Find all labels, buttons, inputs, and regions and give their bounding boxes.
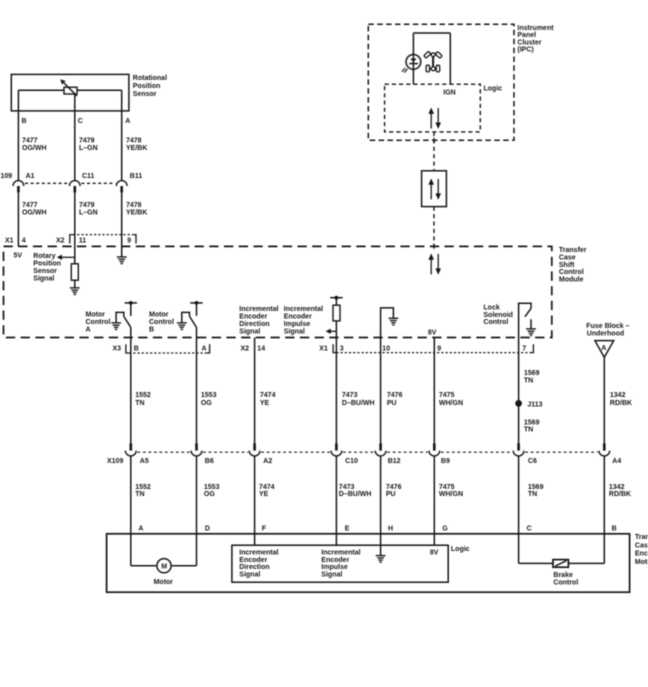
pin row X2-14	[241, 346, 266, 353]
wire YE/BK to ground inside module	[121, 246, 123, 256]
connector terminal A4	[599, 443, 621, 465]
wire 7479 L-GN lower segment	[74, 193, 76, 247]
svg-text:OG: OG	[204, 491, 215, 498]
svg-text:C11: C11	[82, 173, 95, 180]
svg-text:1553: 1553	[204, 484, 220, 491]
svg-text:YE: YE	[259, 491, 269, 498]
potentiometer element line	[18, 89, 121, 91]
svg-text:Encoder: Encoder	[239, 314, 267, 321]
impulse signal pullup tap	[330, 296, 343, 305]
connector dashed link A1-C11	[25, 182, 68, 184]
svg-text:YE/BK: YE/BK	[126, 209, 147, 216]
svg-text:Incremental: Incremental	[284, 306, 323, 313]
svg-text:A: A	[202, 346, 207, 353]
svg-text:Motor: Motor	[635, 559, 648, 566]
svg-text:1342: 1342	[609, 484, 625, 491]
svg-text:A5: A5	[140, 458, 149, 465]
connector terminal A1	[13, 173, 35, 193]
wire 7473 D-BU/WH upper	[335, 338, 337, 444]
svg-text:1552: 1552	[135, 484, 151, 491]
svg-text:Motor: Motor	[154, 579, 174, 586]
serial data dashed wire upper	[433, 132, 435, 171]
connector terminal B6	[191, 443, 214, 465]
svg-text:Instrument: Instrument	[517, 25, 554, 32]
connector terminal B11	[116, 173, 142, 193]
svg-text:7: 7	[522, 346, 526, 353]
svg-text:C10: C10	[345, 458, 358, 465]
svg-text:B11: B11	[130, 173, 143, 180]
label 1569 TN (lower)	[528, 484, 544, 498]
svg-text:Rotary: Rotary	[33, 253, 55, 260]
motor feed wire D bend	[171, 565, 197, 567]
motor M	[157, 559, 171, 573]
svg-text:1569: 1569	[524, 370, 540, 377]
svg-text:OG/WH: OG/WH	[22, 209, 47, 216]
label Incremental Encoder Impulse Signal (encoder box)	[321, 549, 360, 578]
IPC logic serial arrows	[428, 108, 441, 129]
connector X109 dashed links	[137, 451, 597, 453]
svg-text:L–GN: L–GN	[79, 145, 98, 152]
label Brake Control	[553, 572, 578, 586]
wire 7474 YE lower	[254, 456, 256, 545]
svg-text:Encoder: Encoder	[284, 314, 312, 321]
label Motor Control A	[86, 312, 111, 334]
svg-text:Impulse: Impulse	[321, 564, 348, 571]
wire 7476 PU upper	[380, 338, 382, 444]
svg-text:L–GN: L–GN	[79, 209, 98, 216]
svg-text:1552: 1552	[135, 392, 151, 399]
svg-text:RD/BK: RD/BK	[610, 400, 632, 407]
svg-text:Lock: Lock	[483, 304, 499, 311]
wire impulse resistor to pin 3	[335, 321, 337, 338]
pin row X3	[113, 344, 210, 353]
label 1342 RD/BK (lower)	[609, 484, 631, 498]
ground pin 10	[389, 318, 399, 325]
svg-text:1553: 1553	[201, 392, 217, 399]
svg-text:Control: Control	[553, 580, 578, 587]
svg-text:Sensor: Sensor	[133, 91, 157, 98]
svg-text:Signal: Signal	[284, 328, 305, 335]
svg-text:Fuse Block –: Fuse Block –	[586, 323, 629, 330]
IPC lamp wire lower	[412, 69, 414, 84]
svg-text:7477: 7477	[22, 138, 38, 145]
label 7476 PU (lower)	[386, 484, 402, 498]
svg-text:A: A	[125, 118, 130, 125]
label 1553 OG (upper)	[201, 392, 217, 407]
svg-text:Direction: Direction	[239, 321, 269, 328]
svg-text:Module: Module	[559, 276, 584, 283]
serial wire border tick 2	[433, 244, 435, 249]
impulse signal arrow	[326, 329, 337, 334]
label Transfer Case Shift Control Module	[559, 247, 587, 283]
svg-text:Control: Control	[483, 319, 508, 326]
svg-text:B12: B12	[388, 458, 401, 465]
connector X1 dotted span	[336, 352, 530, 354]
ground pin H	[376, 556, 386, 563]
label 7473 D-BU/WH (lower)	[339, 484, 372, 498]
svg-text:Transfer: Transfer	[559, 247, 587, 254]
svg-text:Motor: Motor	[149, 312, 169, 319]
label 7475 WH/GN (upper)	[439, 392, 463, 407]
indicator lamp	[402, 55, 421, 73]
svg-text:X109: X109	[107, 458, 123, 465]
svg-text:X2: X2	[56, 237, 65, 244]
potentiometer wiper body	[60, 79, 77, 96]
svg-text:9: 9	[437, 346, 441, 353]
resistor rotary signal	[71, 264, 78, 280]
svg-text:7479: 7479	[79, 202, 95, 209]
connector terminal A2	[249, 443, 272, 465]
svg-text:Control: Control	[559, 269, 584, 276]
wire 7478 YE/BK lower segment	[121, 193, 123, 247]
brake wire B bend	[568, 562, 604, 564]
svg-text:Case: Case	[559, 255, 576, 262]
label 7478 YE/BK (upper)	[126, 138, 147, 153]
svg-text:X109: X109	[0, 173, 12, 180]
label Fuse Block - Underhood	[586, 323, 629, 337]
rotational position sensor box	[11, 74, 129, 111]
svg-text:Position: Position	[133, 83, 161, 90]
label 7475 WH/GN (lower)	[439, 484, 463, 498]
wire 1569 TN lower	[518, 456, 520, 563]
svg-text:5V: 5V	[14, 253, 23, 260]
wire 7475 WH/GN lower	[433, 456, 435, 545]
label 7476 PU (upper)	[387, 392, 403, 407]
wire 1552 TN lower	[130, 456, 132, 566]
svg-text:7479: 7479	[79, 138, 95, 145]
svg-text:C: C	[527, 526, 532, 533]
connector terminal A5	[125, 443, 148, 465]
svg-text:Incremental: Incremental	[321, 549, 360, 556]
svg-text:B6: B6	[205, 458, 214, 465]
svg-text:7475: 7475	[439, 392, 455, 399]
svg-text:B: B	[22, 118, 27, 125]
svg-text:Encoder: Encoder	[239, 557, 267, 564]
svg-text:X1: X1	[5, 237, 14, 244]
instrument panel cluster dashed box	[368, 24, 514, 140]
svg-text:C: C	[78, 118, 83, 125]
svg-text:PU: PU	[387, 400, 397, 407]
label 1553 OG (lower)	[204, 484, 220, 498]
svg-text:Signal: Signal	[239, 328, 260, 335]
wire 7477 OG/WH lower segment	[17, 193, 19, 247]
svg-text:7478: 7478	[126, 138, 142, 145]
label 7479 L-GN (lower)	[79, 202, 98, 217]
svg-text:3: 3	[340, 346, 344, 353]
svg-text:1569: 1569	[524, 419, 540, 426]
svg-text:Signal: Signal	[321, 572, 342, 579]
wire pin 10 to ground	[381, 308, 394, 338]
svg-text:F: F	[262, 526, 267, 533]
wire 7477 OG/WH upper segment	[17, 90, 19, 181]
svg-text:9: 9	[127, 237, 131, 244]
svg-text:Solenoid: Solenoid	[483, 312, 513, 319]
lock solenoid switch	[519, 303, 531, 337]
svg-text:8V: 8V	[428, 330, 437, 337]
IPC logic dashed box	[385, 84, 481, 132]
label 7473 D-BU/WH (upper)	[342, 392, 375, 407]
serial data link box	[422, 171, 447, 207]
svg-text:OG: OG	[201, 400, 212, 407]
svg-text:WH/GN: WH/GN	[439, 491, 463, 498]
connector dashed link C11-B11	[81, 182, 115, 184]
svg-text:E: E	[345, 526, 350, 533]
svg-text:B: B	[134, 346, 139, 353]
connector terminal C10	[331, 443, 358, 465]
svg-text:D–BU/WH: D–BU/WH	[342, 400, 375, 407]
label 7474 YE (upper)	[260, 392, 276, 407]
transfer case shift control module dashed box	[4, 246, 552, 337]
wire 1553 OG upper	[196, 338, 198, 444]
serial link box arrows	[428, 178, 441, 199]
serial data dashed wire lower	[433, 207, 435, 247]
sensor pin letters B C A	[22, 118, 131, 125]
wire 7479 L-GN upper segment	[74, 94, 76, 181]
encoder logic box	[232, 545, 448, 582]
svg-text:A: A	[138, 526, 143, 533]
svg-text:Rotational: Rotational	[133, 75, 167, 82]
svg-text:14: 14	[257, 346, 265, 353]
svg-text:G: G	[442, 526, 448, 533]
svg-text:11: 11	[79, 237, 87, 244]
module serial arrows	[428, 253, 441, 274]
svg-text:Incremental: Incremental	[239, 549, 278, 556]
svg-text:Shift: Shift	[559, 262, 575, 269]
wire 7474 YE upper	[254, 338, 256, 444]
label Rotational Position Sensor	[133, 75, 167, 98]
wire 1552 TN upper	[130, 338, 132, 444]
connector terminal B12	[375, 443, 400, 465]
label 7477 OG/WH (lower)	[22, 202, 47, 217]
label Rotary Position Sensor Signal	[33, 253, 61, 283]
fuse block triangle A	[595, 341, 614, 358]
IPC IGN wire	[449, 33, 451, 84]
svg-text:Direction: Direction	[239, 564, 269, 571]
label 7474 YE (lower)	[259, 484, 275, 498]
svg-text:Impulse: Impulse	[284, 321, 311, 328]
wire L-GN inside module	[74, 246, 76, 263]
svg-text:Panel: Panel	[517, 32, 536, 39]
brake control element	[553, 560, 568, 568]
svg-text:H: H	[388, 526, 393, 533]
label Lock Solenoid Control	[483, 304, 513, 326]
svg-text:B9: B9	[441, 458, 450, 465]
wire motor control A to pin B	[130, 327, 132, 337]
svg-text:A: A	[86, 326, 91, 333]
transfer case encoder motor box	[107, 534, 630, 592]
label 1569 TN below J113	[524, 419, 540, 433]
svg-text:C6: C6	[528, 458, 537, 465]
label Transfer Case Encoder Motor (clipped)	[635, 534, 648, 566]
svg-text:Position: Position	[33, 260, 61, 267]
svg-text:Underhood: Underhood	[587, 331, 624, 338]
wire motor control B to pin A	[196, 327, 198, 337]
svg-text:7477: 7477	[22, 202, 38, 209]
connector X2 bracket left	[56, 235, 86, 245]
svg-text:7476: 7476	[386, 484, 402, 491]
pin X1-4 labels	[5, 237, 26, 244]
label Incremental Encoder Direction Signal (encoder box)	[239, 549, 278, 578]
svg-text:TN: TN	[135, 400, 144, 407]
svg-text:X3: X3	[113, 346, 122, 353]
wire 1342 RD/BK upper	[603, 357, 605, 443]
svg-text:Signal: Signal	[33, 275, 54, 282]
svg-text:B: B	[149, 326, 154, 333]
svg-text:Brake: Brake	[553, 572, 573, 579]
wire resistor to ground	[74, 280, 76, 287]
ground motor control A	[111, 323, 121, 330]
svg-text:Control: Control	[149, 319, 174, 326]
wire 7478 YE/BK upper segment	[121, 90, 123, 181]
wire 7473 D-BU/WH lower	[335, 456, 337, 545]
serial wire border tick	[433, 138, 435, 143]
svg-text:Incremental: Incremental	[239, 306, 278, 313]
ground motor control B	[177, 323, 187, 330]
svg-text:Motor: Motor	[86, 312, 106, 319]
svg-text:7474: 7474	[259, 484, 275, 491]
svg-text:Case: Case	[635, 542, 648, 549]
svg-text:TN: TN	[135, 491, 144, 498]
connector terminal C6	[513, 443, 537, 465]
label 1342 RD/BK (upper)	[610, 392, 632, 407]
resistor impulse signal	[333, 305, 340, 321]
IPC wire top bar	[413, 32, 450, 34]
svg-text:7475: 7475	[439, 484, 455, 491]
rotary position sensor signal arrow	[57, 255, 75, 260]
svg-text:Encoder: Encoder	[321, 557, 349, 564]
pin row X1	[319, 344, 533, 352]
svg-text:J113: J113	[527, 401, 542, 408]
ground rotary signal	[70, 288, 80, 295]
svg-text:YE/BK: YE/BK	[126, 145, 147, 152]
brake wire C bend	[519, 562, 553, 564]
splice J113	[515, 400, 542, 408]
svg-text:IGN: IGN	[443, 90, 455, 97]
svg-text:8V: 8V	[430, 550, 439, 557]
label Incremental Encoder Impulse Signal (module)	[284, 306, 323, 335]
svg-text:Cluster: Cluster	[517, 39, 541, 46]
connector terminal B9	[429, 443, 450, 465]
svg-text:A4: A4	[612, 458, 621, 465]
svg-text:Logic: Logic	[451, 546, 470, 553]
svg-text:A1: A1	[26, 173, 35, 180]
svg-text:Encoder: Encoder	[635, 551, 648, 558]
label 7478 YE/BK (lower)	[126, 202, 147, 217]
label 1552 TN (upper)	[135, 392, 151, 407]
svg-text:10: 10	[382, 346, 390, 353]
svg-text:TN: TN	[528, 491, 537, 498]
label 7477 OG/WH (upper)	[22, 138, 47, 153]
wire 7475 WH/GN upper	[433, 338, 435, 444]
wire 7476 PU lower	[380, 456, 382, 555]
svg-text:Signal: Signal	[239, 572, 260, 579]
label 7479 L-GN (upper)	[79, 138, 98, 153]
connector X3 dotted span	[129, 352, 206, 354]
svg-text:Transfer: Transfer	[635, 534, 648, 541]
svg-text:7474: 7474	[260, 392, 276, 399]
svg-text:X2: X2	[241, 346, 250, 353]
connector X2 dotted span	[73, 234, 133, 236]
svg-text:WH/GN: WH/GN	[439, 400, 463, 407]
4WD drivetrain icon	[424, 51, 443, 72]
motor control A switch	[116, 301, 137, 327]
label 1552 TN (lower)	[135, 484, 151, 498]
svg-text:7476: 7476	[387, 392, 403, 399]
wire 1569 TN upper	[518, 338, 520, 444]
svg-text:Logic: Logic	[484, 85, 503, 92]
motor control B switch	[182, 301, 203, 327]
svg-text:1342: 1342	[610, 392, 626, 399]
svg-text:D–BU/WH: D–BU/WH	[339, 491, 372, 498]
svg-text:7478: 7478	[126, 202, 142, 209]
svg-text:7473: 7473	[339, 484, 355, 491]
svg-text:D: D	[205, 526, 210, 533]
svg-text:X1: X1	[319, 346, 328, 353]
svg-text:RD/BK: RD/BK	[609, 491, 631, 498]
svg-text:1569: 1569	[528, 484, 544, 491]
connector X2 bracket right	[127, 235, 136, 245]
connector terminal C11	[69, 173, 94, 193]
svg-text:A2: A2	[263, 458, 272, 465]
svg-text:PU: PU	[386, 491, 396, 498]
svg-text:B: B	[612, 526, 617, 533]
svg-text:Control: Control	[86, 319, 111, 326]
wire 1342 RD/BK lower	[603, 456, 605, 563]
label 1569 TN above J113	[524, 370, 540, 384]
ground pin 9 top	[117, 257, 127, 264]
svg-text:A: A	[601, 345, 606, 352]
label Motor Control B	[149, 312, 174, 334]
label Instrument Panel Cluster (IPC)	[517, 25, 554, 54]
label Incremental Encoder Direction Signal (module)	[239, 306, 278, 335]
svg-text:7473: 7473	[342, 392, 358, 399]
svg-text:YE: YE	[260, 400, 270, 407]
wire 1553 OG lower	[196, 456, 198, 566]
motor feed wire A bend	[131, 565, 157, 567]
svg-text:OG/WH: OG/WH	[22, 145, 47, 152]
ground lock solenoid	[526, 329, 536, 336]
svg-text:M: M	[161, 563, 167, 570]
IPC lamp wire upper	[412, 33, 414, 55]
svg-text:Sensor: Sensor	[33, 268, 57, 275]
svg-text:TN: TN	[524, 377, 533, 384]
svg-text:(IPC): (IPC)	[517, 47, 533, 54]
svg-text:TN: TN	[524, 427, 533, 434]
svg-text:4: 4	[22, 237, 26, 244]
